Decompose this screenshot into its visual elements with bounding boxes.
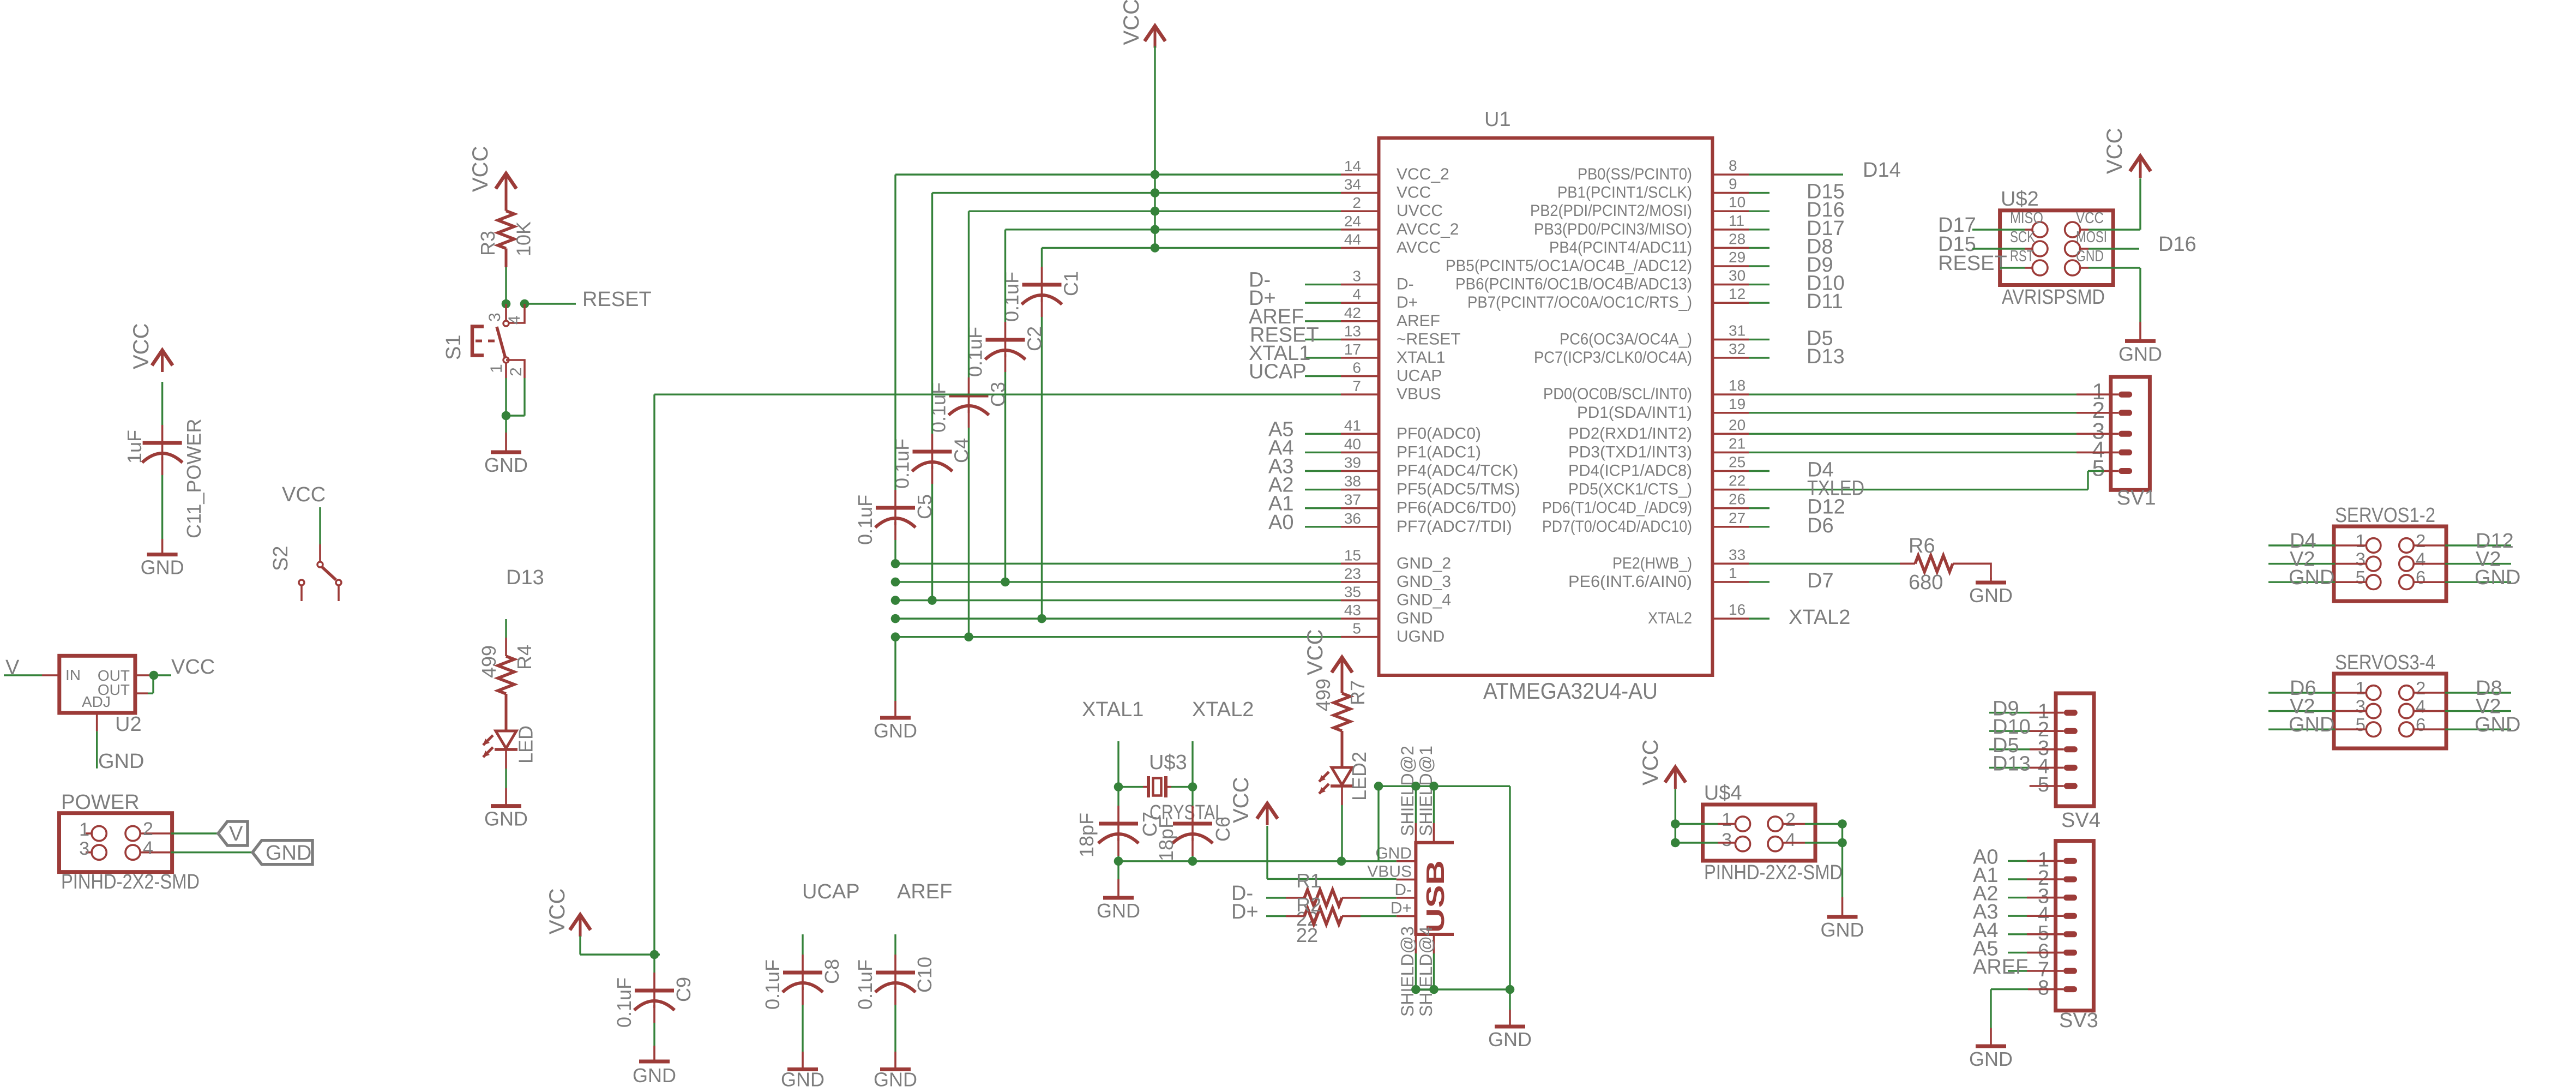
net label D6 (U1 right) [1807, 514, 1834, 537]
svg-text:D16: D16 [2158, 233, 2196, 256]
svg-text:10: 10 [1729, 194, 1746, 211]
svg-text:37: 37 [1344, 491, 1361, 508]
wire A1 to SV3 [2008, 878, 2063, 880]
svg-text:PE2(HWB_): PE2(HWB_) [1612, 554, 1692, 572]
svg-text:SHIELD@1: SHIELD@1 [1416, 746, 1436, 836]
svg-text:D+: D+ [1397, 293, 1418, 311]
svg-text:PF7(ADC7/TDI): PF7(ADC7/TDI) [1397, 518, 1512, 536]
svg-text:SHIELD@4: SHIELD@4 [1416, 926, 1436, 1017]
net label D4 (U1 right) [1807, 459, 1834, 482]
svg-text:R7: R7 [1346, 680, 1369, 705]
svg-text:C10: C10 [913, 957, 936, 993]
svg-text:PD5(XCK1/CTS_): PD5(XCK1/CTS_) [1568, 481, 1692, 499]
svg-text:D4: D4 [1807, 459, 1834, 482]
svg-text:PB7(PCINT7/OC0A/OC1C/RTS_): PB7(PCINT7/OC0A/OC1C/RTS_) [1467, 293, 1692, 311]
svg-text:8: 8 [2038, 977, 2049, 1000]
svg-text:ADJ: ADJ [82, 693, 111, 710]
svg-text:7: 7 [1352, 377, 1361, 394]
svg-text:XTAL1: XTAL1 [1082, 698, 1143, 721]
svg-text:D-: D- [1397, 275, 1414, 293]
net label GND (SERVOS3-4 left) [2289, 713, 2334, 736]
svg-text:31: 31 [1729, 322, 1746, 339]
svg-text:SERVOS3-4: SERVOS3-4 [2335, 651, 2435, 674]
wire V2 from SERVOS1-2 (right) [2414, 563, 2511, 565]
svg-text:4: 4 [2416, 549, 2425, 569]
net label D8 (U1 right) [1807, 235, 1833, 258]
wire RESET-RST [2000, 267, 2032, 268]
svg-text:D13: D13 [1993, 752, 2031, 775]
svg-text:16: 16 [1729, 601, 1746, 618]
resistor R6 680 [1900, 535, 1991, 594]
node junctions at RESET net [502, 299, 529, 309]
net label D+ (USB) [1231, 901, 1259, 923]
ground symbol below C11 [141, 539, 184, 579]
net label UCAP (U1 left) [1249, 361, 1307, 383]
wire D- stub to U1 [1305, 284, 1341, 285]
connector U$4 PINHD-2X2-SMD [1703, 782, 1843, 884]
wire U2.OUT to VCC [135, 674, 171, 676]
net label D+ (U1 left) [1249, 287, 1276, 310]
wire POWER pin2 to V flag [171, 832, 218, 834]
net label VCC at U2 output [171, 656, 215, 679]
ground symbol below S1 [484, 416, 528, 476]
svg-text:GND: GND [266, 842, 311, 865]
svg-text:GND: GND [781, 1069, 824, 1090]
wire D5 to SV4 [1989, 748, 2064, 750]
svg-text:IN: IN [65, 667, 81, 683]
wire A2 stub to U1 [1305, 489, 1341, 490]
svg-text:499: 499 [478, 645, 500, 678]
svg-text:499: 499 [1312, 679, 1334, 711]
net label A5 (SV3) [1973, 937, 1998, 960]
stub SV4 pin5 unconnected [2030, 785, 2064, 787]
capacitor C11_POWER 1uF [123, 382, 205, 539]
wire V2 to SERVOS1-2 (left) [2268, 563, 2366, 565]
svg-text:3: 3 [2356, 697, 2366, 717]
svg-text:27: 27 [1729, 509, 1746, 526]
net label D17 (to U$2 MISO) [1938, 214, 1976, 237]
power symbol VCC (main rail above U1) [1120, 0, 1165, 48]
net label RESET [582, 288, 652, 311]
svg-text:GND: GND [1375, 844, 1412, 862]
svg-text:6: 6 [2416, 567, 2425, 587]
svg-text:3: 3 [1352, 268, 1361, 285]
wire D8 from SERVOS3-4 (right) [2414, 692, 2511, 694]
svg-text:22: 22 [1296, 924, 1318, 946]
svg-text:GND: GND [1821, 919, 1864, 941]
net label D10 (U1 right) [1807, 272, 1845, 295]
voltage regulator U2 [59, 656, 142, 736]
svg-text:AVCC_2: AVCC_2 [1397, 220, 1459, 238]
wire GND from SERVOS3-4 (right) [2414, 728, 2511, 730]
svg-text:680: 680 [1909, 571, 1943, 594]
wire D9 to SV4 [1989, 712, 2064, 713]
svg-text:38: 38 [1344, 473, 1361, 490]
net label D- (U1 left) [1249, 269, 1271, 292]
svg-text:VCC: VCC [129, 323, 153, 369]
net label TXLED [1807, 477, 1864, 500]
ground symbol below C9 [633, 1046, 676, 1087]
wire D+ stub to U1 [1305, 302, 1341, 304]
svg-text:0.1uF: 0.1uF [761, 959, 784, 1010]
svg-text:PB1(PCINT1/SCLK): PB1(PCINT1/SCLK) [1557, 184, 1692, 202]
wire D8 stub from U1 [1749, 247, 1770, 249]
net label GND at U2.ADJ [98, 750, 144, 773]
wire XTAL2 stub [1749, 617, 1770, 619]
wire A4 stub to U1 [1305, 452, 1341, 453]
connector POWER PINHD-2X2-SMD [59, 791, 200, 893]
svg-text:44: 44 [1344, 231, 1361, 248]
svg-text:1uF: 1uF [123, 430, 146, 464]
wire U1 PD2 to SV1 pin 3 [1749, 433, 2118, 435]
svg-text:D7: D7 [1807, 569, 1834, 592]
svg-text:GND: GND [2289, 566, 2334, 589]
capacitor C4 0.1uF bypass [891, 193, 973, 601]
wires VCC to U$4 pins 1/3 [1671, 789, 1735, 847]
wire RESET to label [525, 303, 576, 304]
net label A0 (SV3) [1973, 845, 1998, 868]
svg-text:1: 1 [2356, 531, 2366, 551]
net label AREF (SV3) [1973, 956, 2028, 979]
net label A4 (U1 left) [1268, 436, 1293, 459]
wire V input to U2.IN [4, 674, 59, 676]
svg-text:17: 17 [1344, 341, 1361, 358]
svg-text:PB4(PCINT4/ADC11): PB4(PCINT4/ADC11) [1549, 238, 1692, 256]
svg-text:R2: R2 [1296, 893, 1321, 916]
svg-text:24: 24 [1344, 213, 1361, 230]
wire A3 to SV3 [2008, 915, 2063, 916]
net label D9 (U1 right) [1807, 254, 1833, 277]
svg-text:VCC: VCC [545, 889, 569, 934]
net label XTAL1 (crystal) [1082, 698, 1143, 721]
svg-text:D13: D13 [1807, 345, 1845, 368]
ground symbol below C8 [781, 1052, 824, 1091]
net label XTAL2 (U1 pin16) [1789, 606, 1850, 629]
wire ground rail from crystal caps to USB GND [1118, 860, 1397, 862]
svg-text:GND: GND [484, 808, 528, 830]
wire XTAL1 to crystal/C7 [1117, 741, 1119, 787]
net label A3 (SV3) [1973, 901, 1998, 923]
svg-text:ATMEGA32U4-AU: ATMEGA32U4-AU [1483, 678, 1658, 704]
connector SERVOS1-2 [2334, 504, 2446, 601]
wire XTAL1 stub to U1 [1305, 357, 1341, 358]
net label D5 (U1 right) [1807, 327, 1833, 350]
svg-text:40: 40 [1344, 435, 1361, 452]
svg-text:4: 4 [143, 838, 153, 859]
net label V [5, 656, 20, 679]
svg-text:GND_3: GND_3 [1397, 573, 1451, 591]
capacitor C5 0.1uF bypass [854, 175, 936, 563]
svg-text:UCAP: UCAP [1397, 367, 1442, 385]
svg-text:R6: R6 [1909, 535, 1935, 557]
net label D10 (SV4) [1993, 716, 2031, 739]
svg-text:S2: S2 [269, 546, 292, 571]
power symbol VCC (U$2) [2103, 128, 2151, 178]
svg-text:PF1(ADC1): PF1(ADC1) [1397, 443, 1481, 461]
wire U1 PD1 to SV1 pin 2 [1749, 412, 2118, 413]
svg-text:S1: S1 [442, 335, 465, 360]
svg-text:VCC: VCC [2103, 128, 2127, 174]
svg-text:VCC: VCC [171, 656, 215, 679]
svg-text:0.1uF: 0.1uF [964, 327, 986, 377]
svg-text:GND: GND [874, 1069, 917, 1090]
wire A2 to SV3 [2008, 897, 2063, 898]
wire A1 stub to U1 [1305, 507, 1341, 509]
node junctions at crystal pins [1114, 782, 1197, 791]
svg-text:GND: GND [1969, 1048, 2013, 1070]
svg-text:20: 20 [1729, 416, 1746, 433]
svg-text:5: 5 [2356, 715, 2366, 735]
svg-text:PF5(ADC5/TMS): PF5(ADC5/TMS) [1397, 481, 1520, 499]
net label D8 (SERVOS3-4 right) [2476, 677, 2502, 700]
svg-text:PD7(T0/OC4D/ADC10): PD7(T0/OC4D/ADC10) [1542, 518, 1692, 536]
capacitor C1 0.1uF bypass [1001, 248, 1082, 619]
svg-text:UVCC: UVCC [1397, 202, 1443, 220]
svg-text:PC6(OC3A/OC4A_): PC6(OC3A/OC4A_) [1560, 330, 1692, 348]
svg-text:U$2: U$2 [2001, 188, 2039, 211]
svg-text:R3: R3 [477, 231, 499, 256]
wire U2 second OUT tie [135, 675, 153, 693]
svg-text:30: 30 [1729, 267, 1746, 284]
svg-text:PINHD-2X2-SMD: PINHD-2X2-SMD [1704, 861, 1843, 884]
wire TXLED net U1 pin22 to SV1 pin5 [1749, 471, 2118, 490]
net label A0 (U1 left) [1268, 511, 1293, 534]
svg-text:GND: GND [1488, 1028, 1532, 1051]
net label AREF (U1 left) [1249, 305, 1304, 328]
svg-text:23: 23 [1344, 565, 1361, 582]
svg-text:5: 5 [2038, 773, 2049, 796]
resistor R2 22 (D+ series) [1266, 893, 1397, 946]
svg-text:D+: D+ [1391, 899, 1412, 917]
svg-text:GND: GND [2475, 713, 2520, 736]
wire U1 PD0 to SV1 pin 1 [1749, 394, 2118, 395]
net label D12 (SERVOS1-2 right) [2476, 530, 2514, 553]
svg-text:28: 28 [1729, 230, 1746, 247]
net label D17 (U1 right) [1807, 217, 1845, 240]
svg-text:C5: C5 [913, 494, 936, 519]
svg-text:3: 3 [79, 838, 89, 859]
svg-text:35: 35 [1344, 584, 1361, 601]
U1 left pin stubs, pin numbers and pin names [1341, 158, 1520, 646]
net label UCAP (C8) [802, 880, 860, 903]
wire D17-MISO [1972, 229, 2032, 230]
svg-text:43: 43 [1344, 602, 1361, 619]
power symbol VCC (USB VBUS) [1229, 777, 1278, 825]
LED LED2 [1319, 752, 1370, 801]
svg-text:14: 14 [1344, 158, 1361, 175]
svg-text:VCC: VCC [1229, 777, 1253, 823]
svg-text:1: 1 [79, 819, 89, 840]
net label V2 (SERVOS1-2 left) [2290, 548, 2315, 571]
svg-text:GND: GND [1397, 609, 1433, 627]
svg-text:1: 1 [1729, 565, 1737, 581]
connector SV1 [2092, 377, 2156, 509]
net label A2 (SV3) [1973, 883, 1998, 905]
svg-text:AREF: AREF [897, 880, 952, 903]
net flag GND [252, 841, 312, 865]
svg-text:VBUS: VBUS [1397, 385, 1441, 403]
svg-text:XTAL1: XTAL1 [1397, 349, 1446, 367]
svg-text:VCC: VCC [2076, 209, 2104, 227]
wire V2 to SERVOS3-4 (left) [2268, 710, 2366, 712]
svg-text:U2: U2 [115, 713, 142, 736]
svg-text:SV4: SV4 [2061, 809, 2100, 832]
svg-text:SHIELD@2: SHIELD@2 [1398, 746, 1417, 836]
svg-text:GND: GND [2118, 343, 2162, 365]
wire D5 stub from U1 [1749, 339, 1770, 340]
net label D16 [2158, 233, 2196, 256]
wire D15-SCK [1972, 248, 2032, 249]
svg-text:PB0(SS/PCINT0): PB0(SS/PCINT0) [1578, 165, 1692, 183]
wire A0 to SV3 [2008, 860, 2063, 862]
wire AREF to SV3 [2008, 970, 2063, 971]
wire D10 to SV4 [1989, 730, 2064, 731]
svg-text:3: 3 [486, 313, 504, 322]
power symbol VCC (above R7) [1303, 629, 1352, 679]
svg-text:RESET: RESET [582, 288, 652, 311]
svg-text:U$4: U$4 [1704, 782, 1742, 805]
svg-text:8: 8 [1729, 157, 1737, 174]
wires VCC distribution rows to U1 power pins (14,34,2,24,44) with junctions [895, 170, 1341, 253]
svg-text:V: V [229, 823, 243, 845]
svg-text:R4: R4 [513, 645, 535, 670]
svg-text:GND: GND [633, 1064, 676, 1087]
wire D11 stub from U1 [1749, 302, 1770, 304]
svg-text:XTAL2: XTAL2 [1648, 609, 1692, 627]
svg-text:C1: C1 [1060, 271, 1082, 296]
net label A5 (U1 left) [1268, 418, 1293, 441]
svg-text:PC7(ICP3/CLK0/OC4A): PC7(ICP3/CLK0/OC4A) [1534, 349, 1692, 367]
connector SERVOS3-4 [2334, 651, 2446, 748]
net label D4 (SERVOS1-2 left) [2290, 530, 2316, 553]
svg-text:0.1uF: 0.1uF [854, 495, 876, 545]
svg-text:C9: C9 [672, 977, 695, 1002]
svg-text:U1: U1 [1484, 108, 1511, 131]
capacitor C7 18pF [1075, 787, 1161, 861]
wire AREF stub to U1 [1305, 320, 1341, 322]
net label A3 (U1 left) [1268, 455, 1293, 478]
svg-text:UCAP: UCAP [802, 880, 860, 903]
svg-text:GND: GND [2076, 248, 2104, 265]
svg-text:18: 18 [1729, 377, 1746, 394]
svg-text:34: 34 [1344, 176, 1361, 193]
svg-text:VCC: VCC [468, 146, 492, 192]
svg-text:1: 1 [1722, 809, 1732, 830]
wire UCAP stub to U1 [1305, 375, 1341, 377]
svg-text:D+: D+ [1231, 901, 1259, 923]
svg-text:UGND: UGND [1397, 628, 1445, 646]
wire LED2 cathode to ground rail [1341, 786, 1343, 861]
svg-text:PD4(ICP1/ADC8): PD4(ICP1/ADC8) [1568, 462, 1692, 480]
resistor R4 499 [478, 645, 535, 731]
wire D6 stub from U1 [1749, 526, 1770, 527]
wire D10 stub from U1 [1749, 284, 1770, 285]
svg-text:R1: R1 [1296, 869, 1321, 892]
net label V2 (SERVOS3-4 left) [2290, 695, 2315, 718]
svg-text:39: 39 [1344, 454, 1361, 471]
svg-text:SV3: SV3 [2059, 1009, 2098, 1032]
svg-text:2: 2 [507, 367, 525, 376]
svg-text:0.1uF: 0.1uF [854, 959, 876, 1010]
connector U$2 AVRISPSMD [2000, 188, 2114, 309]
wire D13 stub from U1 [1749, 357, 1770, 358]
svg-text:LED: LED [515, 725, 537, 764]
wire A4 to SV3 [2008, 933, 2063, 935]
svg-text:C11_POWER: C11_POWER [183, 419, 205, 538]
U1 right pin stubs, pin numbers and pin names [1446, 157, 1749, 627]
wire D12 from SERVOS1-2 (right) [2414, 544, 2511, 547]
svg-text:MISO: MISO [2010, 209, 2043, 227]
wire D4 stub from U1 [1749, 470, 1770, 472]
svg-text:2: 2 [1785, 809, 1796, 830]
svg-text:USB: USB [1421, 860, 1449, 933]
svg-text:1: 1 [2356, 678, 2366, 698]
wire V2 from SERVOS3-4 (right) [2414, 710, 2511, 712]
wire D13 to SV4 [1989, 767, 2064, 769]
svg-text:GND_2: GND_2 [1397, 554, 1451, 572]
wire D13 to R4 [505, 619, 507, 656]
wire VBUS/VCC from U1 pin7 down to C9 node [654, 394, 1341, 955]
svg-text:GND: GND [874, 719, 917, 742]
capacitor C8 0.1uF (UCAP) [761, 934, 843, 1052]
net label GND (SERVOS1-2 right) [2475, 566, 2520, 589]
svg-text:PINHD-2X2-SMD: PINHD-2X2-SMD [61, 871, 200, 893]
ground symbol below C7 [1097, 861, 1140, 922]
wire D17 stub from U1 [1749, 229, 1770, 230]
svg-text:GND: GND [2475, 566, 2520, 589]
wire RESET stub to U1 [1305, 339, 1341, 340]
wire U1 PE2 to R6 [1749, 563, 1900, 565]
svg-text:SCK: SCK [2010, 229, 2035, 246]
svg-text:0.1uF: 0.1uF [1001, 272, 1023, 322]
svg-text:C2: C2 [1024, 326, 1046, 351]
svg-text:4: 4 [1352, 286, 1361, 303]
svg-text:MOSI: MOSI [2076, 229, 2107, 246]
svg-text:25: 25 [1729, 454, 1746, 471]
net flag V [218, 821, 248, 845]
ground symbol below LED [484, 788, 528, 830]
svg-text:XTAL2: XTAL2 [1789, 606, 1850, 629]
svg-text:PD0(OC0B/SCL/INT0): PD0(OC0B/SCL/INT0) [1543, 385, 1692, 403]
power symbol VCC (U$4) [1639, 740, 1686, 789]
svg-text:PD2(RXD1/INT2): PD2(RXD1/INT2) [1568, 424, 1692, 442]
wire D12 stub from U1 [1749, 507, 1770, 509]
net label A1 (SV3) [1973, 864, 1998, 887]
net label A1 (U1 left) [1268, 493, 1293, 515]
connector SV3 [2038, 841, 2098, 1032]
svg-text:18pF: 18pF [1075, 813, 1098, 857]
svg-text:PB3(PD0/PCIN3/MISO): PB3(PD0/PCIN3/MISO) [1534, 220, 1692, 238]
wire A0 stub to U1 [1305, 526, 1341, 527]
svg-text:AVCC: AVCC [1397, 238, 1441, 256]
capacitor C10 0.1uF (AREF) [854, 934, 936, 1052]
net label XTAL2 (crystal) [1192, 698, 1254, 721]
svg-text:PD1(SDA/INT1): PD1(SDA/INT1) [1577, 404, 1692, 422]
wire A5 to SV3 [2008, 952, 2063, 953]
svg-text:42: 42 [1344, 304, 1361, 321]
svg-text:UCAP: UCAP [1249, 361, 1307, 383]
svg-text:29: 29 [1729, 249, 1746, 266]
wire GND to SERVOS3-4 (left) [2268, 728, 2366, 730]
wires S1 pins 1/2 tied to ground node [502, 378, 525, 420]
ground symbol below C10 [874, 1052, 917, 1091]
svg-text:PB5(PCINT5/OC1A/OC4B_/ADC12): PB5(PCINT5/OC1A/OC4B_/ADC12) [1446, 257, 1692, 275]
wire U$2 VCC pin to VCC [2080, 178, 2140, 230]
switch S2 with VCC net label [269, 483, 341, 601]
wire XTAL2 to crystal/C6 [1191, 741, 1193, 787]
capacitor C2 0.1uF bypass [964, 230, 1046, 582]
svg-text:18pF: 18pF [1155, 817, 1177, 861]
